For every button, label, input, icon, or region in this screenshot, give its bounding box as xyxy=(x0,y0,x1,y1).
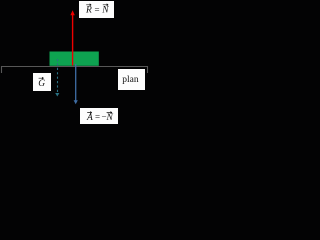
svg-text:N: N xyxy=(101,6,109,16)
svg-text:G: G xyxy=(38,79,45,89)
svg-text:plan: plan xyxy=(122,75,139,85)
svg-text:=: = xyxy=(95,4,100,14)
svg-text:R: R xyxy=(85,6,92,16)
svg-text:=: = xyxy=(95,111,100,121)
svg-text:A: A xyxy=(86,113,93,123)
svg-text:N: N xyxy=(105,113,113,123)
